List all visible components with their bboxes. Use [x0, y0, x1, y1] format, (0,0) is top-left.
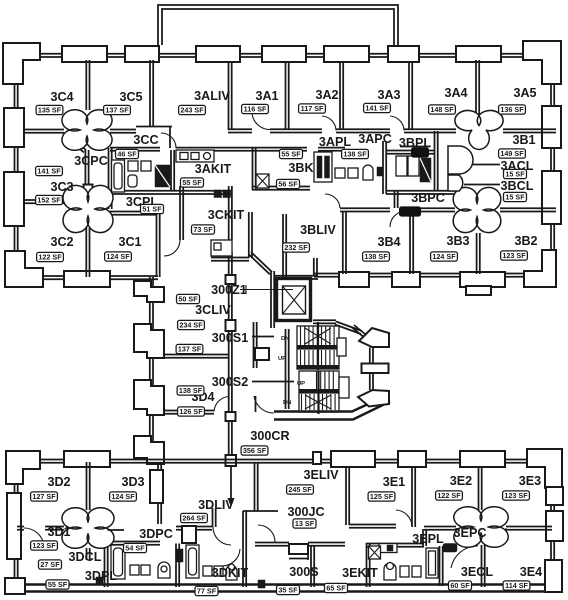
wire: [270, 129, 322, 132]
node TR-corner: [527, 449, 562, 488]
fixture closet dark: [155, 165, 170, 187]
svg-text:3E1: 3E1: [383, 475, 405, 489]
wire: [23, 130, 64, 133]
wire: [89, 530, 105, 533]
node window: [392, 272, 420, 287]
wire: [482, 545, 485, 587]
wire: [506, 527, 552, 530]
svg-text:3A5: 3A5: [513, 86, 536, 100]
wire: [366, 544, 424, 547]
wire: [180, 186, 183, 240]
wire: [308, 543, 345, 546]
svg-text:141 SF: 141 SF: [365, 104, 389, 113]
wire: [229, 186, 232, 240]
wire: [249, 212, 252, 258]
svg-text:126 SF: 126 SF: [179, 407, 203, 416]
wire: [340, 62, 343, 130]
area box 136 SF: [499, 105, 526, 114]
fixture dark small: [258, 580, 265, 588]
fixture toilet 3D: [158, 562, 170, 578]
area box 141 SF: [36, 166, 63, 175]
wire: [5, 585, 556, 592]
svg-text:3A4: 3A4: [444, 86, 467, 100]
wire: [479, 467, 482, 510]
area box 56 SF: [277, 179, 300, 188]
svg-text:234 SF: 234 SF: [179, 321, 203, 330]
svg-text:50 SF: 50 SF: [178, 295, 198, 304]
svg-text:3D2: 3D2: [47, 475, 70, 489]
fixture 3AKIT counter: [176, 150, 214, 162]
wire: [255, 396, 257, 412]
door arc: [451, 546, 478, 568]
node pier: [134, 380, 164, 415]
svg-text:138 SF: 138 SF: [364, 252, 388, 261]
area box 138 SF: [342, 149, 369, 158]
svg-text:3CPC: 3CPC: [74, 154, 108, 168]
door arc 3AKIT: [161, 133, 176, 148]
area box 116 SF: [242, 104, 269, 113]
svg-text:124 SF: 124 SF: [432, 252, 456, 261]
wire: [423, 529, 426, 546]
svg-text:3CC: 3CC: [133, 133, 158, 147]
node duct: [255, 348, 269, 360]
area box 55 SF: [181, 178, 204, 187]
area box 15 SF: [504, 192, 527, 201]
svg-text:122 SF: 122 SF: [437, 491, 461, 500]
area box 27 SF: [39, 560, 62, 569]
wire: [136, 127, 172, 149]
door arc 3B4: [390, 211, 406, 227]
node junction: [84, 185, 93, 193]
door arc: [24, 528, 44, 546]
svg-text:3A1: 3A1: [255, 89, 278, 103]
wire: [176, 148, 307, 151]
node window: [456, 46, 501, 62]
svg-text:123 SF: 123 SF: [504, 491, 528, 500]
node BL-corner: [5, 251, 43, 287]
node window: [460, 451, 505, 467]
svg-text:73 SF: 73 SF: [193, 225, 213, 234]
node window: [196, 46, 240, 62]
area box 124 SF: [110, 492, 137, 501]
node junction: [226, 320, 236, 331]
wire: [176, 544, 179, 588]
svg-text:60 SF: 60 SF: [450, 581, 470, 590]
fixture dark 3D: [176, 549, 183, 562]
wire: [107, 542, 160, 545]
svg-text:3ELIV: 3ELIV: [304, 468, 340, 482]
wire: [85, 150, 88, 186]
node window: [64, 271, 110, 287]
svg-text:3B3: 3B3: [446, 234, 469, 248]
node window: [460, 272, 505, 287]
wire: [477, 233, 480, 274]
node window: [362, 364, 389, 374]
svg-text:DN: DN: [283, 400, 291, 406]
svg-text:3DPL: 3DPL: [85, 569, 117, 583]
svg-text:3BPC: 3BPC: [411, 191, 445, 205]
area box 15 SF: [504, 169, 527, 178]
wire: [551, 467, 554, 588]
wire: [110, 191, 232, 194]
wire: [383, 141, 386, 194]
wire: [240, 285, 293, 294]
fixture 3CKIT counter: [211, 240, 232, 256]
fixture dark 3A: [377, 167, 383, 176]
door arc 3A3: [390, 116, 404, 131]
door symbol 3C foyer upper: [62, 110, 112, 151]
wire: [24, 200, 64, 203]
area box 138 SF: [363, 252, 390, 261]
svg-text:3BLIV: 3BLIV: [300, 223, 336, 237]
svg-text:77 SF: 77 SF: [197, 587, 217, 596]
node junction: [226, 275, 236, 284]
node pier: [134, 281, 164, 302]
area box 122 SF: [37, 252, 64, 261]
area box 124 SF: [105, 252, 132, 261]
wire: [503, 129, 556, 132]
node closet 300S: [289, 544, 308, 554]
svg-text:3EPC: 3EPC: [454, 526, 487, 540]
wire: [213, 508, 216, 527]
svg-text:3B4: 3B4: [377, 235, 400, 249]
wire: [286, 329, 289, 409]
area box 80 SF dark: [412, 148, 429, 157]
wire: [386, 151, 434, 154]
fixture shower 3E: [369, 546, 381, 559]
node window: [62, 46, 107, 62]
node window: [4, 108, 24, 147]
area box 356 SF: [241, 446, 268, 455]
svg-text:3D1: 3D1: [47, 525, 70, 539]
wire: [352, 325, 365, 336]
wire: [336, 129, 390, 132]
wire: [476, 60, 479, 115]
fixture sinks 3CC: [128, 161, 138, 171]
door arc: [254, 396, 274, 413]
wire: [318, 148, 345, 151]
wire: [171, 150, 174, 191]
wire: [230, 466, 232, 500]
fixture counter 3E: [379, 544, 397, 553]
svg-text:127 SF: 127 SF: [32, 492, 56, 501]
wire: [105, 530, 108, 587]
svg-text:3B2: 3B2: [514, 234, 537, 248]
area box 137 SF: [104, 105, 131, 114]
node closet 3DPC: [182, 526, 196, 543]
wire: [283, 214, 286, 279]
node window: [125, 46, 159, 62]
svg-text:3EKIT: 3EKIT: [342, 566, 378, 580]
svg-text:3E3: 3E3: [519, 474, 541, 488]
svg-text:148 SF: 148 SF: [430, 105, 454, 114]
wire: [17, 527, 24, 530]
fixture washers 3BPL: [396, 156, 407, 176]
svg-text:117 SF: 117 SF: [301, 104, 324, 113]
area box 135 SF: [36, 105, 63, 114]
node pier: [134, 324, 164, 358]
wire: [274, 396, 390, 420]
area box 65 SF: [325, 583, 348, 592]
wire: [255, 462, 258, 511]
svg-text:13 SF: 13 SF: [295, 519, 315, 528]
node window: [358, 390, 389, 407]
area box 123 SF: [501, 251, 528, 260]
fixture dark 3EPL: [443, 544, 457, 553]
wire: [158, 5, 398, 48]
node window: [388, 46, 419, 62]
area box 126 SF: [178, 407, 205, 416]
node TL-corner: [3, 43, 40, 84]
wire: [87, 462, 90, 510]
wire: [252, 381, 294, 383]
closet 3BCL: [448, 175, 463, 191]
area box 125 SF: [368, 492, 395, 501]
wire: [395, 191, 398, 208]
wire: [176, 527, 212, 530]
fixture sinks 3DPC: [203, 566, 212, 576]
area box 152 SF: [36, 195, 63, 204]
node window: [542, 171, 561, 224]
area box 114 SF: [503, 581, 530, 590]
node window: [546, 487, 563, 505]
node window: [339, 272, 369, 287]
wire: [440, 546, 443, 586]
svg-text:3E2: 3E2: [450, 474, 472, 488]
svg-text:243 SF: 243 SF: [180, 106, 204, 115]
wire: [158, 462, 161, 524]
svg-text:3C3: 3C3: [50, 180, 73, 194]
node TL-corner: [6, 451, 40, 484]
svg-text:300JC: 300JC: [287, 505, 324, 519]
area box 264 SF: [181, 513, 208, 522]
area box 149 SF: [499, 149, 526, 158]
wire: [400, 146, 430, 148]
wire: [412, 466, 415, 527]
wire: [551, 58, 554, 273]
node window: [546, 511, 563, 541]
svg-text:3ECL: 3ECL: [461, 565, 493, 579]
wire: [464, 184, 500, 186]
area box 46 SF: [116, 149, 139, 158]
svg-text:UP: UP: [297, 381, 305, 387]
wire: [255, 543, 289, 546]
node junction: [226, 412, 236, 421]
wire: [86, 228, 89, 277]
svg-text:3D3: 3D3: [121, 475, 144, 489]
svg-text:3A2: 3A2: [315, 88, 338, 102]
node window: [324, 46, 369, 62]
door symbol 3D foyer: [62, 508, 114, 549]
fixture shower 3A: [256, 174, 269, 188]
wire: [410, 211, 413, 274]
wire: [271, 271, 274, 328]
svg-text:122 SF: 122 SF: [38, 253, 62, 262]
fixture closet dark 3BPL: [420, 158, 431, 182]
area box 77 SF: [195, 586, 218, 595]
wire: [464, 164, 500, 166]
node window: [64, 451, 110, 467]
wire: [15, 58, 18, 277]
svg-text:3APC: 3APC: [358, 132, 392, 146]
fixture dark small: [96, 577, 103, 585]
wire: [87, 548, 90, 560]
area box 55 SF: [46, 580, 69, 589]
area box 50 SF: [177, 294, 200, 303]
svg-text:15 SF: 15 SF: [505, 170, 525, 179]
svg-text:54 SF: 54 SF: [125, 544, 145, 553]
svg-text:35 SF: 35 SF: [278, 586, 298, 595]
wire: [150, 277, 153, 458]
svg-text:356 SF: 356 SF: [243, 446, 267, 455]
area box 73 SF: [192, 225, 215, 234]
area box 232 SF: [283, 243, 310, 252]
area box 124 SF: [431, 252, 458, 261]
fixture closet 3APL: [314, 152, 332, 182]
wire: [286, 62, 289, 130]
door arc 3CKIT: [164, 240, 180, 256]
node window: [313, 452, 321, 464]
svg-text:15 SF: 15 SF: [505, 193, 525, 202]
svg-text:27 SF: 27 SF: [40, 560, 60, 569]
wire: [15, 469, 18, 586]
wire: [164, 411, 214, 414]
svg-text:114 SF: 114 SF: [505, 581, 528, 590]
wire: [254, 322, 257, 368]
area box 60 SF: [449, 581, 472, 590]
area box 35 SF: [277, 585, 300, 594]
wire: [435, 131, 438, 191]
svg-text:125 SF: 125 SF: [370, 492, 394, 501]
wire: [110, 148, 160, 151]
svg-text:123 SF: 123 SF: [502, 251, 526, 260]
wire: [346, 466, 349, 525]
node window: [398, 451, 426, 467]
door arc: [486, 528, 506, 546]
area box 137 SF: [176, 344, 203, 353]
wire: [340, 208, 390, 211]
area box 122 SF: [436, 491, 463, 500]
node window: [262, 46, 306, 62]
svg-text:300S: 300S: [289, 565, 318, 579]
door arc 3DPC: [213, 527, 231, 545]
wire: [86, 60, 89, 110]
svg-text:3E4: 3E4: [520, 565, 542, 579]
door arc: [214, 397, 229, 412]
wire: [23, 460, 545, 463]
wire: [409, 62, 412, 130]
svg-text:245 SF: 245 SF: [288, 485, 312, 494]
door symbol 3E foyer: [454, 507, 508, 548]
svg-text:3B1: 3B1: [512, 133, 535, 147]
elevator 300Z1 shaft: [277, 279, 311, 321]
svg-text:3DLIV: 3DLIV: [198, 498, 234, 512]
wire: [228, 129, 252, 132]
wire: [211, 258, 249, 261]
wire: [500, 208, 556, 211]
node BL-corner: [5, 578, 25, 594]
fixture sinks 3D: [130, 565, 139, 575]
wire: [349, 525, 396, 528]
fixture washer 3EPL: [426, 548, 438, 578]
wire: [370, 373, 373, 390]
svg-text:3DKIT: 3DKIT: [212, 566, 249, 580]
svg-text:3APL: 3APL: [319, 135, 351, 149]
node pier: [134, 436, 164, 464]
wire: [370, 348, 373, 365]
node window: [359, 328, 389, 347]
svg-text:3CLIV: 3CLIV: [195, 303, 231, 317]
fixture toilet 3E: [384, 563, 396, 580]
node BR-corner: [524, 250, 556, 287]
svg-text:3C5: 3C5: [119, 90, 142, 104]
fixture appliances: [214, 190, 222, 198]
svg-text:65 SF: 65 SF: [326, 584, 346, 593]
wire: [386, 191, 455, 194]
area box 13 SF: [293, 519, 316, 528]
svg-text:138 SF: 138 SF: [179, 386, 203, 395]
svg-text:3DCL: 3DCL: [69, 550, 102, 564]
door symbol 3C foyer lower: [63, 185, 113, 232]
wire: [164, 355, 229, 358]
wire: [64, 134, 86, 153]
fixture toilet 3DPC: [226, 566, 237, 581]
fixture toilet 3CC: [128, 175, 137, 187]
door arc 3ALIV: [252, 113, 270, 130]
svg-text:124 SF: 124 SF: [111, 492, 135, 501]
area box 90 SF dark: [400, 207, 421, 216]
node window: [7, 493, 21, 559]
area box 123 SF: [503, 491, 530, 500]
svg-text:3C4: 3C4: [50, 90, 73, 104]
stairs 300S1: [297, 322, 346, 370]
fixture sinks 3A: [335, 168, 345, 178]
svg-text:124 SF: 124 SF: [106, 252, 130, 261]
wire: [314, 258, 317, 276]
wire: [45, 527, 64, 530]
wire: [252, 336, 274, 338]
area box 117 SF: [299, 104, 326, 113]
fixture sinks 3E: [400, 566, 409, 577]
wire: [406, 208, 455, 211]
svg-text:3BK: 3BK: [288, 161, 313, 175]
door arc 3BLIV: [325, 194, 340, 208]
wire: [314, 274, 556, 277]
svg-text:3CKIT: 3CKIT: [208, 208, 245, 222]
area box 127 SF: [31, 492, 58, 501]
svg-text:264 SF: 264 SF: [182, 514, 206, 523]
svg-text:152 SF: 152 SF: [37, 196, 61, 205]
svg-text:136 SF: 136 SF: [500, 105, 524, 114]
svg-text:149 SF: 149 SF: [500, 149, 524, 158]
fixture toilet 3A: [363, 165, 373, 180]
fixture tub 3DPC: [186, 545, 199, 578]
wire: [275, 276, 318, 279]
svg-text:135 SF: 135 SF: [38, 106, 62, 115]
fixture tub 3CC: [112, 160, 125, 192]
door arc: [222, 549, 240, 566]
svg-text:3C1: 3C1: [118, 235, 141, 249]
wire: [343, 211, 346, 274]
wire: [249, 252, 272, 274]
wire: [229, 62, 232, 130]
closet 3ACL: [448, 146, 473, 174]
svg-text:55 SF: 55 SF: [48, 580, 68, 589]
wire: [108, 529, 125, 531]
wire: [110, 212, 157, 215]
area box 234 SF: [178, 320, 205, 329]
svg-text:3C2: 3C2: [50, 235, 73, 249]
